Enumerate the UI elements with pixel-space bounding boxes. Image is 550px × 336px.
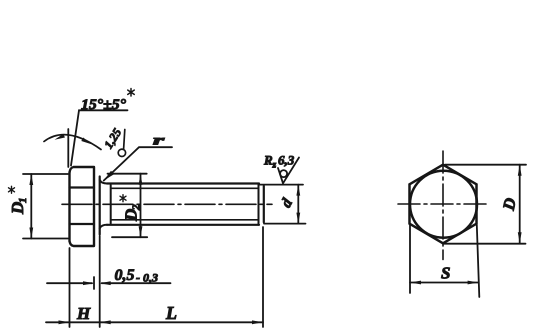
fillet under head (bottom): [100, 225, 107, 229]
roughness Rz 6,3 symbol: [278, 158, 299, 184]
dimension 0,5: dimension lines with arrows: [47, 282, 171, 284]
svg-text:- 0,3: - 0,3: [136, 271, 158, 285]
roughness 1,25 symbol leg: [124, 130, 125, 150]
svg-text:S: S: [441, 264, 450, 283]
dimension D: dimension line: [519, 165, 521, 244]
svg-text:0,5: 0,5: [115, 267, 135, 284]
svg-text:r: r: [153, 133, 166, 148]
dimension S: extension lines: [410, 225, 479, 297]
dimension d: dimension line: [297, 185, 299, 224]
head facet line lower: [70, 223, 95, 225]
hex view horizontal centerline: [398, 203, 490, 205]
dimension d: label: [278, 196, 296, 211]
hex view vertical centerline: [442, 151, 444, 260]
roughness 1,25 label: [101, 126, 124, 151]
dimension D1: label: [8, 198, 29, 216]
dimension S: arrows: [410, 281, 479, 285]
shank outer top line: [107, 182, 259, 184]
thread minor dia bottom line: [111, 219, 259, 221]
hex head end view: hexagon: [410, 165, 477, 244]
dimension S: dimension line: [410, 282, 479, 284]
thread minor dia top line: [111, 187, 259, 189]
shank outer bottom line: [107, 224, 259, 226]
washer face of head: [99, 177, 101, 235]
svg-text:1,25: 1,25: [101, 126, 124, 151]
chamfer angle leader 15deg: [71, 110, 128, 165]
svg-text:2: 2: [131, 204, 143, 211]
svg-text:H: H: [76, 304, 91, 323]
centerline: [62, 203, 272, 205]
svg-text:R: R: [263, 153, 273, 168]
dimension H arrows (outside): [59, 320, 111, 324]
roughness 1,25 symbol circle: [118, 149, 125, 156]
dimension H and L: extension lines: [70, 227, 264, 327]
dimension D1: arrows: [29, 174, 33, 239]
svg-text:6,3: 6,3: [278, 153, 295, 168]
dimension L arrow: [252, 320, 263, 324]
chamfer angle arc arrows: [55, 134, 92, 144]
svg-text:1: 1: [17, 198, 29, 204]
bolt end face: [263, 186, 265, 222]
svg-text:z: z: [272, 161, 277, 171]
dimension D2: dimension line: [140, 174, 142, 238]
dimension D2: arrows: [139, 174, 143, 238]
dimension D1: dimension line: [30, 174, 32, 239]
dimension D2: label: [122, 204, 143, 222]
svg-text:L: L: [165, 303, 177, 323]
dimension D: label: [499, 196, 520, 213]
fillet radius leader r: [104, 147, 172, 180]
dimension D1: extension lines: [23, 174, 68, 239]
dimension D2: extension lines: [108, 174, 148, 238]
svg-text:d: d: [278, 196, 296, 211]
chamfer angle extension line: [67, 129, 69, 167]
dimension d: extension lines: [259, 185, 306, 224]
chamfer angle arc: [44, 135, 101, 150]
bolt head (side view outline): [70, 167, 95, 246]
dimension D: extension lines: [444, 165, 527, 244]
dimension H and L: dimension line: [46, 321, 263, 323]
head facet line upper: [70, 186, 95, 188]
dimension 0,5: extension lines: [94, 236, 100, 327]
hex head end view: inscribed circle: [410, 171, 477, 238]
fillet under head (top): [100, 180, 107, 184]
svg-text:15°±5°: 15°±5°: [81, 97, 126, 113]
dimension D: arrows: [518, 165, 522, 244]
dimension d: arrows: [296, 185, 300, 224]
svg-text:D: D: [499, 196, 520, 213]
end chamfer line: [258, 184, 260, 225]
thread start line: [110, 185, 112, 224]
